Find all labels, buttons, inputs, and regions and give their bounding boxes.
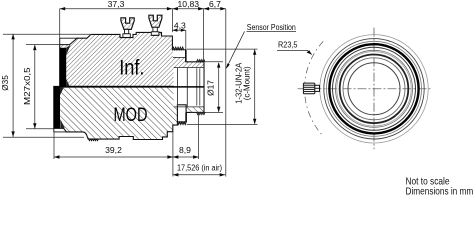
R23,5 label with leader xyxy=(277,39,312,54)
dimension M27x0,5 (filter thread) xyxy=(23,45,60,129)
svg-text:37,3: 37,3 xyxy=(108,0,125,9)
front lens element edge, Inf. (black bar) xyxy=(60,45,71,87)
C-mount thread teeth, upper stub xyxy=(172,47,183,50)
front view vertical centerline xyxy=(373,28,375,150)
rear bore edge upper xyxy=(174,67,204,69)
C-mount thread teeth, lower stub xyxy=(178,122,187,125)
front lens element edge, MOD (black bar) xyxy=(54,87,65,129)
set screw 2 (side view) xyxy=(149,15,162,35)
set screw 1 (side view) xyxy=(121,18,134,38)
svg-text:10,83: 10,83 xyxy=(178,0,200,9)
optical axis / split line between Inf and MOD halves xyxy=(54,86,204,88)
svg-text:4,3: 4,3 xyxy=(174,20,186,30)
rear bore edge lower xyxy=(174,106,204,108)
svg-text:39,2: 39,2 xyxy=(105,145,122,155)
side set screw seen in front view (knurled) xyxy=(303,83,319,94)
svg-text:(c-Mount): (c-Mount) xyxy=(243,66,252,100)
svg-text:R23,5: R23,5 xyxy=(278,39,298,49)
front retaining ring flat, upper (white band) xyxy=(60,38,77,44)
svg-text:6,7: 6,7 xyxy=(209,0,221,9)
svg-text:8,9: 8,9 xyxy=(179,145,191,155)
lens barrel upper half section (Inf. focus position) xyxy=(60,32,204,86)
M27 filter thread serrations (lower front) xyxy=(89,139,99,141)
C-mount stub rear face upper (thick) xyxy=(185,50,187,62)
rear lens group edges xyxy=(178,68,200,107)
svg-text:Sensor Position: Sensor Position xyxy=(247,23,296,32)
rear bore cavity (white) xyxy=(174,68,204,107)
rear tube thread teeth upper xyxy=(197,60,205,62)
front view horizontal centerline xyxy=(298,88,431,90)
dimension Ø17 (rear tube diameter) xyxy=(190,62,223,113)
svg-text:MOD: MOD xyxy=(114,104,148,126)
front view concentric rings of lens face xyxy=(320,35,428,143)
dimension Ø35 (barrel outer diameter) xyxy=(1,34,90,137)
svg-text:M27x0,5: M27x0,5 xyxy=(23,67,32,105)
C-mount stub rear face lower (thick) xyxy=(185,112,187,122)
svg-text:Dimensions in mm: Dimensions in mm xyxy=(406,187,474,198)
Sensor Position label with leader xyxy=(226,23,296,69)
lens barrel lower half section (MOD focus position) xyxy=(54,86,204,139)
svg-text:Ø35: Ø35 xyxy=(1,75,10,91)
C-mount stub lower white block xyxy=(177,105,186,122)
R23,5 reference arc (dash-dot) xyxy=(305,41,324,135)
sensor plane line xyxy=(225,9,227,177)
dimension 17,526 (in air) flange focal distance xyxy=(173,162,225,176)
C-mount stub interior upper (white) xyxy=(173,50,186,57)
svg-text:Inf.: Inf. xyxy=(119,56,144,79)
dimension 1-32-UN-2A (c-Mount) thread callout xyxy=(187,49,258,124)
dimension 37,3 / 10,83 / 6,7 top chain xyxy=(60,0,226,62)
svg-text:17,526 (in air): 17,526 (in air) xyxy=(177,162,222,172)
svg-text:Ø17: Ø17 xyxy=(206,80,216,96)
rear tube thread teeth lower xyxy=(197,112,205,114)
dimension 4,3 (C-mount thread length) xyxy=(172,20,186,49)
dimension 39,2 / 8,9 bottom chain xyxy=(54,114,199,177)
front retaining ring flat, lower (white band) xyxy=(54,128,67,132)
